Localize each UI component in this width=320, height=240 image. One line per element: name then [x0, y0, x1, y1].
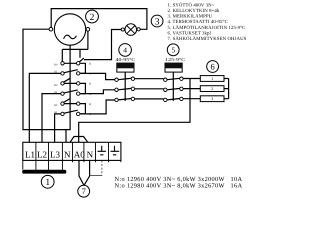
svg-text:A0: A0	[74, 150, 85, 160]
svg-text:1: 1	[45, 178, 50, 188]
svg-text:6: 6	[210, 62, 214, 72]
svg-text:N0: N0	[54, 64, 58, 67]
svg-text:L3: L3	[50, 150, 60, 160]
svg-text:N: N	[64, 150, 71, 160]
svg-text:3: 3	[211, 96, 213, 101]
svg-text:A: A	[89, 73, 91, 76]
svg-text:L2: L2	[37, 150, 47, 160]
svg-text:3. MERKKILAMPPU: 3. MERKKILAMPPU	[168, 14, 213, 20]
svg-text:2. KELLOKYTKIN 8+4h: 2. KELLOKYTKIN 8+4h	[168, 8, 220, 14]
svg-text:7: 7	[82, 186, 86, 196]
svg-text:N: N	[87, 150, 94, 160]
svg-text:B: B	[89, 83, 91, 86]
svg-text:N:o 12980 400V 3N~ 8,0kW 3x267: N:o 12980 400V 3N~ 8,0kW 3x2670W 16A	[115, 182, 243, 189]
svg-text:4. TERMOSTAATTI 40-95°C: 4. TERMOSTAATTI 40-95°C	[168, 19, 228, 25]
svg-text:40-95°C: 40-95°C	[116, 57, 136, 62]
svg-text:4: 4	[123, 46, 127, 55]
svg-text:N0: N0	[54, 84, 58, 87]
svg-text:L1: L1	[25, 150, 35, 160]
svg-text:N0: N0	[54, 104, 58, 107]
svg-text:A: A	[89, 113, 91, 116]
svg-text:1. SYÖTTÖ 400V 3N~: 1. SYÖTTÖ 400V 3N~	[168, 2, 215, 8]
svg-text:5. LÄMPÖTILANRAJOITIN 125-9°C: 5. LÄMPÖTILANRAJOITIN 125-9°C	[168, 25, 246, 31]
svg-text:2: 2	[211, 86, 213, 91]
svg-text:B: B	[89, 63, 91, 66]
svg-text:2: 2	[90, 13, 95, 23]
svg-text:A: A	[89, 93, 91, 96]
svg-text:6. VASTUKSET 3kpl: 6. VASTUKSET 3kpl	[168, 30, 212, 36]
svg-text:125-9°C: 125-9°C	[165, 57, 185, 62]
svg-text:5: 5	[171, 45, 175, 54]
svg-text:7. SÄHKÖLÄMMITYKSEN OHJAUS: 7. SÄHKÖLÄMMITYKSEN OHJAUS	[168, 36, 247, 42]
svg-text:1: 1	[211, 76, 213, 81]
svg-text:3: 3	[155, 17, 160, 27]
svg-text:B: B	[89, 103, 91, 106]
